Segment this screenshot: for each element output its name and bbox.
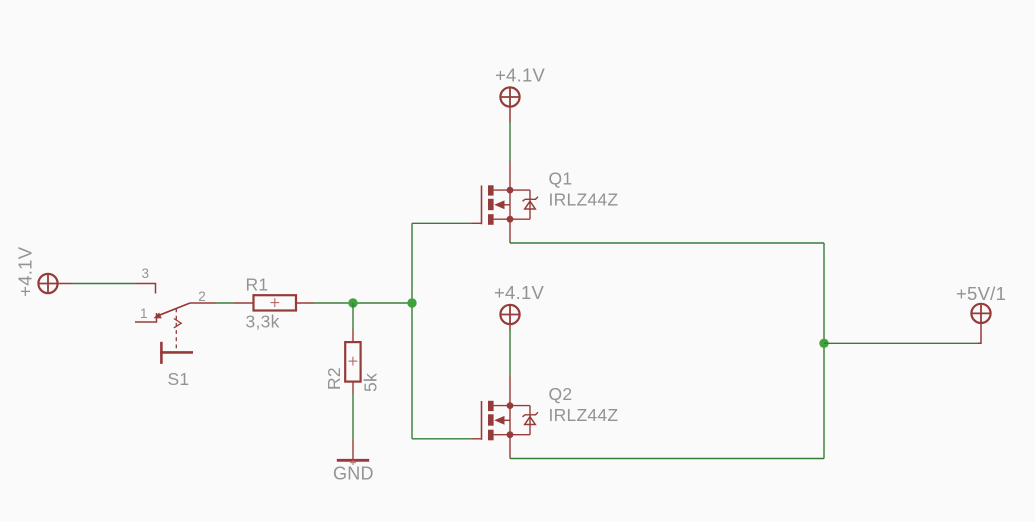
wire R1 to gate rail (314, 302, 412, 304)
resistor R1 (234, 295, 314, 310)
wire P3 to Q2 drain (509, 330, 511, 376)
supply +4.1V P1 (left) (38, 274, 72, 293)
svg-text:Q2: Q2 (549, 384, 573, 404)
wire P2 to Q1 drain (509, 122, 511, 161)
origin cross R1 (270, 298, 279, 307)
wire P1 to S1 pin 3 (72, 283, 135, 285)
wire Q2 source to right rail (510, 458, 824, 460)
svg-text:R2: R2 (324, 367, 344, 390)
svg-text:1: 1 (140, 306, 148, 321)
svg-text:Q1: Q1 (549, 169, 573, 189)
switch S1 (135, 284, 216, 364)
transistor Q1 (471, 161, 538, 243)
supply +5V/1 (971, 304, 990, 344)
svg-text:3: 3 (142, 266, 150, 281)
wire node OUT to +5V/1 (824, 342, 978, 344)
svg-text:3,3k: 3,3k (246, 312, 280, 332)
svg-text:GND: GND (333, 464, 374, 484)
junction node OUT (819, 339, 828, 348)
wire gate rail vertical (411, 223, 413, 438)
svg-text:IRLZ44Z: IRLZ44Z (549, 405, 619, 425)
svg-text:+4.1V: +4.1V (494, 282, 545, 303)
wire right rail vertical (823, 243, 825, 459)
wire Q1 source to right rail (510, 242, 824, 244)
origin cross R2 (349, 357, 358, 366)
wire node A to R2 (352, 303, 354, 329)
supply +4.1V P2 (top) (500, 87, 519, 122)
svg-text:R1: R1 (246, 275, 269, 295)
resistor R2 (345, 329, 360, 394)
wire to Q1 gate (412, 222, 471, 224)
wire to Q2 gate (412, 438, 471, 440)
junction node A (R2 tap) (348, 298, 357, 307)
svg-text:+5V/1: +5V/1 (956, 283, 1006, 304)
wire S1 pin 2 to R1 (216, 302, 234, 304)
svg-text:5k: 5k (361, 373, 381, 392)
origin cross GND (350, 460, 356, 465)
ground GND (337, 440, 369, 460)
svg-text:+4.1V: +4.1V (15, 246, 36, 297)
wire R2 to GND (352, 394, 354, 440)
transistor Q2 (471, 376, 538, 459)
svg-text:S1: S1 (168, 369, 190, 389)
junction node B (gate rail) (407, 298, 416, 307)
svg-text:IRLZ44Z: IRLZ44Z (549, 190, 619, 210)
svg-text:2: 2 (198, 289, 206, 304)
svg-text:+4.1V: +4.1V (495, 65, 546, 86)
supply +4.1V P3 (middle) (500, 305, 519, 330)
